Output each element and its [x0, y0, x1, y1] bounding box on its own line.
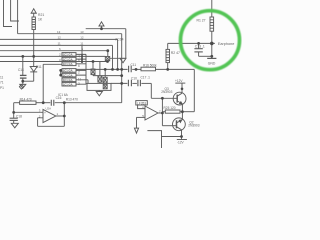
svg-text:1C1 GA: 1C1 GA — [63, 78, 73, 82]
svg-text:12: 12 — [58, 36, 62, 40]
svg-text:2N3903: 2N3903 — [188, 123, 199, 127]
svg-text:1C1 GA: 1C1 GA — [63, 62, 73, 66]
svg-text:11: 11 — [78, 77, 82, 81]
svg-text:+: + — [44, 111, 46, 115]
svg-text:1C1 GA: 1C1 GA — [63, 73, 73, 77]
svg-text:C13 .1: C13 .1 — [195, 44, 205, 48]
svg-text:3: 3 — [78, 82, 80, 86]
svg-text:13: 13 — [80, 30, 84, 34]
svg-text:R16 500k: R16 500k — [143, 64, 157, 68]
svg-text:D11: D11 — [36, 65, 42, 69]
svg-text:12: 12 — [80, 36, 84, 40]
svg-text:71: 71 — [0, 81, 4, 85]
svg-text:1C1 GA: 1C1 GA — [63, 57, 73, 61]
svg-text:GND: GND — [208, 61, 216, 65]
svg-text:R14 470: R14 470 — [20, 98, 32, 102]
svg-text:1K: 1K — [38, 18, 43, 22]
svg-text:13: 13 — [57, 30, 61, 34]
svg-text:1C1 GA: 1C1 GA — [63, 53, 73, 57]
svg-text:C16: C16 — [56, 96, 62, 100]
svg-text:C11: C11 — [131, 63, 137, 67]
svg-text:2N3903: 2N3903 — [161, 90, 172, 94]
svg-text:11: 11 — [80, 41, 83, 45]
svg-text:4: 4 — [78, 55, 80, 59]
svg-text:C18: C18 — [16, 114, 22, 118]
svg-text:C10: C10 — [131, 77, 137, 81]
svg-text:1C1 GA: 1C1 GA — [63, 82, 73, 86]
svg-text:R13 470: R13 470 — [66, 98, 78, 102]
svg-text:R21: R21 — [38, 13, 44, 17]
svg-text:11: 11 — [58, 41, 61, 45]
svg-text:2: 2 — [78, 71, 80, 75]
svg-text:R25 120: R25 120 — [164, 106, 176, 110]
svg-text:8: 8 — [78, 59, 80, 63]
svg-text:Earphone: Earphone — [218, 42, 234, 46]
svg-text:R2 47: R2 47 — [171, 51, 180, 55]
svg-text:-12V: -12V — [177, 140, 185, 144]
svg-text:+12V: +12V — [175, 79, 183, 83]
svg-text:11: 11 — [0, 75, 4, 79]
svg-text:P1: P1 — [0, 86, 4, 90]
svg-text:AC04: AC04 — [115, 37, 124, 41]
svg-text:U2A: U2A — [46, 106, 52, 110]
svg-text:1C1 GA: 1C1 GA — [63, 69, 73, 73]
svg-text:R1 27: R1 27 — [197, 19, 206, 23]
svg-text:C14: C14 — [18, 68, 24, 72]
svg-text:6: 6 — [78, 64, 80, 68]
svg-text:C17 .1: C17 .1 — [141, 76, 151, 80]
